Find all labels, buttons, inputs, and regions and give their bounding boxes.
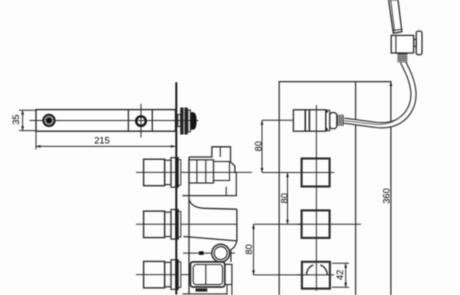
svg-text:80: 80	[253, 141, 263, 151]
svg-text:80: 80	[244, 244, 254, 254]
svg-text:80: 80	[279, 193, 289, 203]
svg-text:42: 42	[335, 270, 345, 280]
svg-text:360: 360	[382, 188, 392, 204]
svg-text:35: 35	[11, 114, 21, 124]
svg-text:215: 215	[94, 136, 110, 146]
